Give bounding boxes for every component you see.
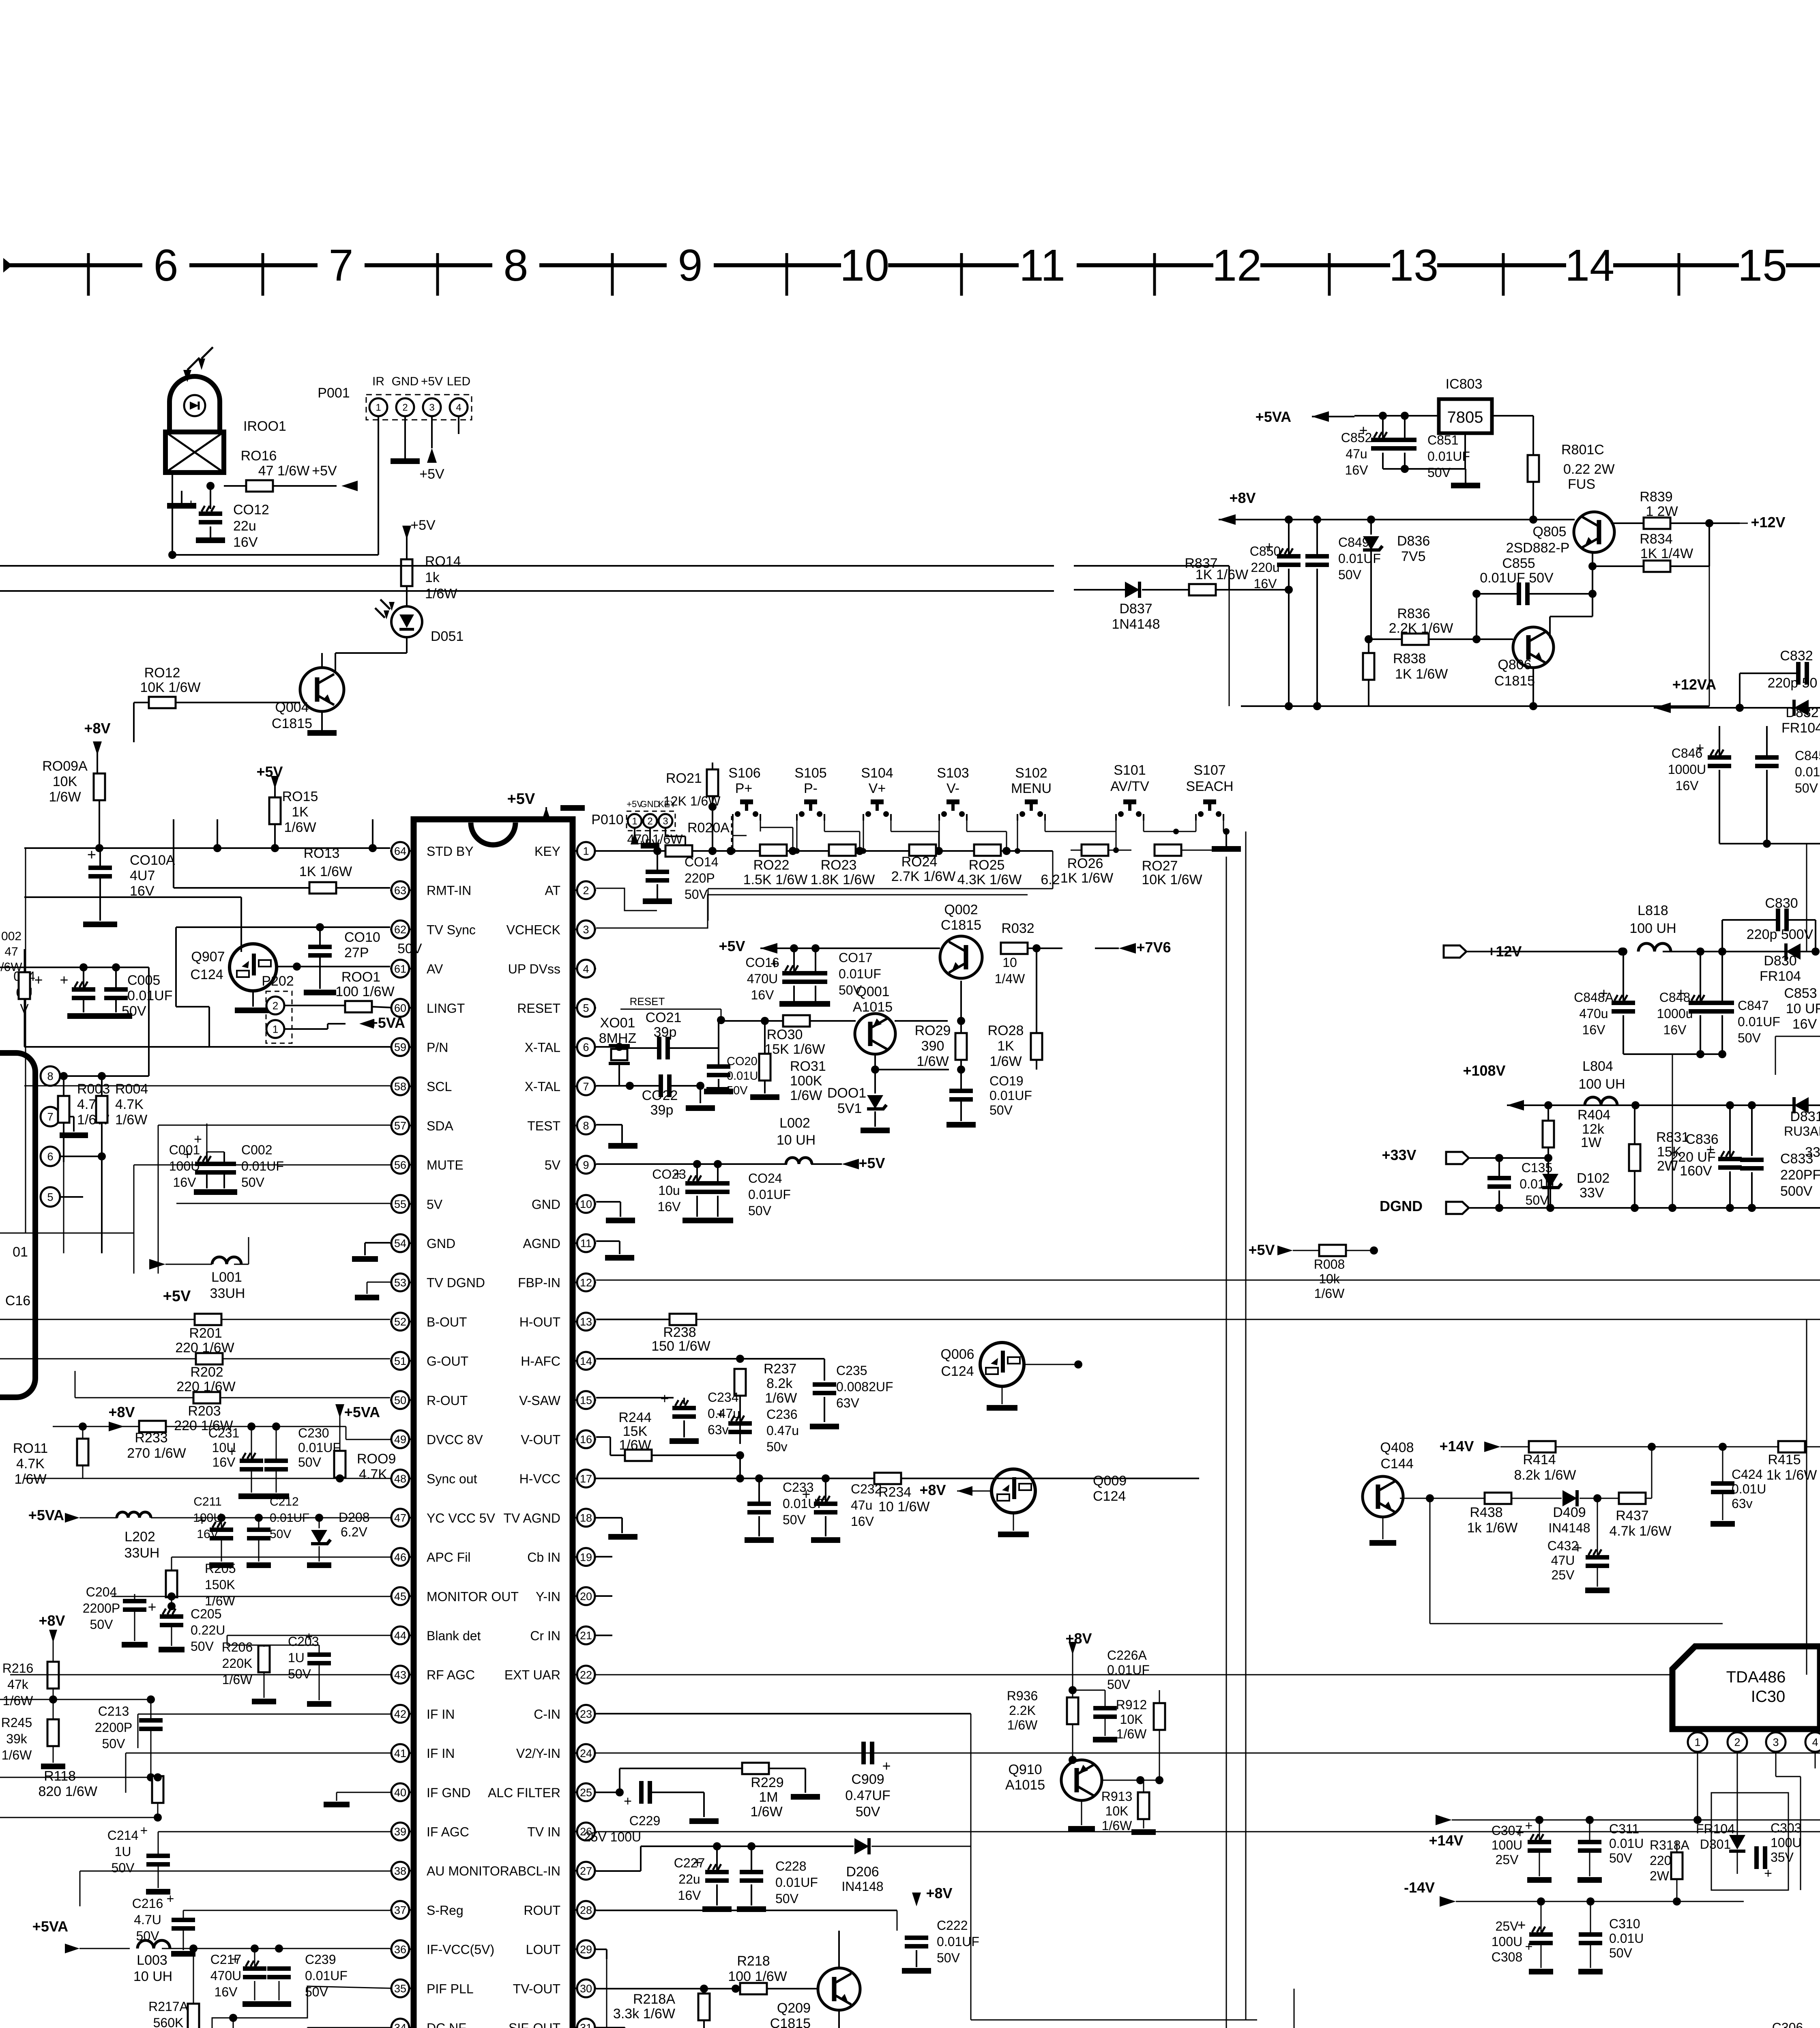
svg-text:R913: R913 (1101, 1789, 1133, 1804)
svg-text:CO14: CO14 (685, 855, 719, 869)
svg-text:+: + (1696, 739, 1704, 756)
svg-text:2W: 2W (1650, 1869, 1670, 1883)
svg-text:100 1/6W: 100 1/6W (335, 984, 395, 999)
svg-text:220P: 220P (685, 871, 715, 885)
svg-text:1/6W: 1/6W (14, 1472, 46, 1487)
svg-text:XO01: XO01 (600, 1015, 635, 1031)
svg-text:CO19: CO19 (989, 1074, 1024, 1088)
svg-text:7: 7 (47, 1111, 53, 1123)
svg-text:S105: S105 (794, 765, 826, 781)
svg-text:25: 25 (580, 1787, 592, 1799)
svg-text:+8V: +8V (1229, 490, 1256, 506)
svg-text:24: 24 (580, 1747, 592, 1759)
svg-text:+5V: +5V (858, 1155, 885, 1171)
wire Q004 base (133, 702, 135, 742)
svg-text:2200P: 2200P (83, 1601, 120, 1616)
svg-text:R318A: R318A (1650, 1838, 1690, 1852)
svg-text:47: 47 (4, 945, 18, 958)
svg-text:GND: GND (532, 1197, 560, 1212)
svg-text:1W: 1W (1581, 1135, 1601, 1150)
svg-text:2: 2 (273, 999, 278, 1012)
svg-text:S106: S106 (728, 765, 760, 781)
svg-text:+: + (34, 971, 43, 988)
svg-text:X-TAL: X-TAL (525, 1040, 560, 1055)
svg-text:1000U: 1000U (1668, 762, 1706, 777)
svg-text:Cr IN: Cr IN (530, 1628, 560, 1643)
svg-text:1/6W: 1/6W (425, 586, 457, 602)
svg-text:7: 7 (583, 1081, 589, 1093)
svg-text:0.01UF: 0.01UF (1738, 1014, 1780, 1029)
LED D051 (391, 606, 422, 637)
svg-text:50: 50 (394, 1394, 406, 1407)
wire pin64 row (24, 847, 390, 849)
svg-text:10 UF: 10 UF (1786, 1001, 1820, 1016)
svg-text:H-VCC: H-VCC (519, 1472, 560, 1486)
svg-text:RESET: RESET (517, 1001, 560, 1016)
ruler (3, 263, 1028, 267)
svg-text:V-: V- (946, 781, 959, 796)
svg-text:50V: 50V (685, 887, 708, 902)
svg-text:Q805: Q805 (1532, 524, 1566, 539)
svg-text:0.0082UF: 0.0082UF (836, 1379, 893, 1394)
svg-text:GND: GND (640, 799, 660, 809)
svg-text:1/6W: 1/6W (2, 1748, 32, 1762)
svg-text:62: 62 (394, 924, 406, 936)
svg-text:R206: R206 (222, 1640, 253, 1654)
svg-text:RU3AM: RU3AM (1784, 1124, 1820, 1139)
svg-text:1K 1/4W: 1K 1/4W (1640, 546, 1693, 561)
wire pin46 apc (172, 1557, 390, 1558)
svg-text:5V: 5V (545, 1158, 561, 1173)
svg-text:3: 3 (663, 816, 668, 827)
svg-text:TEST: TEST (527, 1119, 560, 1133)
svg-text:C849: C849 (1338, 535, 1369, 550)
svg-text:C832: C832 (1780, 648, 1813, 664)
svg-text:A1015: A1015 (1005, 1777, 1045, 1793)
svg-text:Q004: Q004 (275, 700, 309, 715)
svg-text:R216: R216 (2, 1661, 34, 1676)
svg-text:21: 21 (580, 1630, 592, 1642)
svg-text:4: 4 (583, 963, 589, 975)
wire pin22 ext-uar (596, 1674, 1820, 1676)
svg-text:64: 64 (394, 845, 406, 857)
svg-text:Q209: Q209 (777, 2000, 811, 2016)
svg-text:+5V: +5V (410, 518, 436, 533)
svg-text:33UH: 33UH (124, 1545, 160, 1561)
svg-text:27P: 27P (344, 945, 369, 960)
svg-text:R936: R936 (1007, 1689, 1038, 1703)
svg-text:Q910: Q910 (1008, 1762, 1042, 1777)
resistor RO25 (974, 844, 1001, 856)
svg-text:100U: 100U (1492, 1934, 1523, 1949)
svg-text:1U: 1U (115, 1844, 131, 1859)
svg-text:SIF-OUT: SIF-OUT (509, 2021, 560, 2028)
svg-text:220u: 220u (1251, 560, 1279, 575)
svg-text:1/6W: 1/6W (49, 789, 81, 805)
svg-text:RO13: RO13 (304, 846, 340, 861)
svg-text:0.01U: 0.01U (1609, 1931, 1644, 1946)
svg-text:3.3k 1/6W: 3.3k 1/6W (613, 2006, 675, 2022)
svg-text:S104: S104 (861, 765, 893, 781)
svg-text:Sync out: Sync out (427, 1472, 477, 1486)
pin IC001-8 (41, 1066, 60, 1086)
svg-text:+: + (60, 971, 68, 988)
svg-text:0.01UF: 0.01UF (937, 1934, 979, 1949)
svg-text:FR104: FR104 (1760, 969, 1801, 984)
svg-text:CO17: CO17 (839, 950, 873, 965)
svg-text:35V: 35V (1771, 1850, 1794, 1865)
svg-text:63: 63 (394, 884, 406, 896)
svg-text:16V: 16V (751, 988, 775, 1002)
svg-text:+: + (693, 1854, 702, 1871)
svg-text:D830: D830 (1764, 953, 1796, 969)
svg-text:V2/Y-IN: V2/Y-IN (516, 1746, 560, 1761)
svg-text:270 1/6W: 270 1/6W (127, 1446, 186, 1461)
svg-text:40: 40 (394, 1787, 406, 1799)
wire key bus down (1226, 857, 1227, 2028)
svg-text:16V: 16V (233, 535, 258, 550)
op-amp IC001 (partial) (0, 1053, 35, 1397)
svg-text:220PF: 220PF (1780, 1167, 1820, 1183)
svg-text:0.01UF: 0.01UF (775, 1875, 818, 1890)
wire KEY row (715, 850, 1053, 852)
svg-text:1/6W: 1/6W (790, 1088, 822, 1103)
wire pin57 sda (158, 1125, 390, 1126)
ground pin18 TV AGND (596, 1517, 622, 1519)
wire TDA box (1711, 1793, 1788, 1890)
svg-text:35: 35 (394, 1983, 406, 1995)
resistor R415 (1778, 1441, 1805, 1452)
svg-text:R205: R205 (205, 1561, 236, 1576)
svg-text:16V: 16V (658, 1199, 681, 1214)
svg-text:1/6W: 1/6W (989, 1054, 1022, 1069)
svg-text:820 1/6W: 820 1/6W (38, 1784, 97, 1799)
wire pin13 hout (596, 1319, 670, 1320)
svg-text:+: + (167, 1891, 174, 1906)
svg-text:C-IN: C-IN (534, 1707, 560, 1721)
stub pin20 (596, 1595, 612, 1597)
svg-text:C845: C845 (1795, 748, 1820, 763)
svg-text:10: 10 (840, 241, 889, 290)
zener D836 (1363, 536, 1379, 550)
svg-text:560K: 560K (153, 2015, 184, 2028)
pin IC001-6 (41, 1147, 60, 1166)
svg-text:R801C: R801C (1561, 442, 1604, 458)
svg-text:50V: 50V (775, 1891, 799, 1906)
svg-text:C1815: C1815 (272, 716, 312, 731)
svg-text:41: 41 (394, 1747, 406, 1759)
wire pin23 c-in (596, 1713, 971, 1714)
svg-text:Q001: Q001 (856, 984, 889, 999)
svg-text:30: 30 (580, 1983, 592, 1995)
svg-text:6: 6 (583, 1041, 589, 1053)
svg-text:5V1: 5V1 (837, 1101, 862, 1116)
svg-text:1/6W: 1/6W (1116, 1727, 1147, 1741)
svg-text:100 1/6W: 100 1/6W (728, 1969, 787, 1984)
svg-text:C214: C214 (107, 1828, 139, 1843)
svg-text:12: 12 (1212, 241, 1262, 290)
ground CO22 (700, 1086, 701, 1103)
svg-text:11: 11 (1019, 241, 1065, 290)
svg-text:C216: C216 (132, 1896, 163, 1911)
diode D409 (1562, 1490, 1577, 1506)
svg-text:160V: 160V (1680, 1163, 1712, 1179)
svg-text:16V: 16V (1254, 576, 1277, 591)
svg-text:+5V: +5V (719, 938, 745, 954)
wire pin35 pif (193, 1986, 390, 2028)
svg-text:P+: P+ (735, 781, 753, 796)
svg-text:+: + (1676, 985, 1685, 1001)
svg-text:50V: 50V (1526, 1193, 1549, 1207)
svg-text:+: + (802, 1486, 810, 1502)
svg-text:C228: C228 (775, 1859, 807, 1873)
svg-text:+5V: +5V (421, 375, 443, 388)
svg-text:+: + (660, 1390, 669, 1407)
svg-text:+: + (1525, 1818, 1533, 1833)
svg-text:+: + (194, 1132, 202, 1147)
svg-text:RO21: RO21 (666, 771, 702, 786)
svg-text:25V: 25V (1496, 1919, 1519, 1933)
resistor R032 (1001, 943, 1028, 954)
svg-text:R202: R202 (190, 1364, 223, 1380)
svg-text:IF IN: IF IN (427, 1707, 455, 1721)
svg-text:IR: IR (372, 375, 384, 388)
svg-text:RO23: RO23 (821, 857, 857, 873)
resistor RO30 (783, 1015, 810, 1027)
svg-text:D102: D102 (1577, 1171, 1610, 1186)
svg-text:P001: P001 (318, 385, 350, 401)
svg-text:4.3K 1/6W: 4.3K 1/6W (957, 872, 1022, 887)
svg-text:ROO9: ROO9 (357, 1451, 396, 1467)
wire pin48 row (24, 1478, 390, 1479)
svg-text:220K: 220K (222, 1656, 253, 1671)
svg-text:50V: 50V (1609, 1851, 1633, 1865)
svg-text:1000u: 1000u (1657, 1006, 1693, 1021)
svg-text:C124: C124 (941, 1364, 974, 1379)
svg-text:C308: C308 (1492, 1950, 1523, 1964)
svg-text:10u: 10u (658, 1183, 680, 1198)
svg-text:38: 38 (394, 1865, 406, 1877)
svg-text:C848: C848 (1659, 990, 1691, 1005)
svg-text:12: 12 (580, 1276, 592, 1289)
svg-text:8: 8 (503, 241, 528, 290)
svg-text:1: 1 (1694, 1736, 1700, 1749)
svg-text:33UH: 33UH (210, 1286, 245, 1301)
svg-text:GND: GND (392, 375, 419, 388)
svg-text:3: 3 (583, 924, 589, 936)
svg-text:53: 53 (394, 1276, 406, 1289)
svg-text:AT: AT (545, 883, 560, 898)
svg-text:+: + (1359, 422, 1367, 438)
svg-text:R217A: R217A (148, 1999, 189, 2014)
svg-text:1N4148: 1N4148 (1112, 617, 1160, 632)
svg-text:R838: R838 (1393, 651, 1426, 666)
svg-text:C235: C235 (836, 1363, 867, 1378)
svg-text:C002: C002 (241, 1143, 273, 1157)
svg-text:AU MONITOR: AU MONITOR (427, 1864, 509, 1878)
svg-text:+: + (140, 1823, 148, 1838)
svg-text:D051: D051 (431, 629, 464, 644)
svg-text:+: + (227, 1443, 236, 1459)
svg-text:C853: C853 (1784, 986, 1817, 1001)
wire pin15 vsaw (596, 1397, 674, 1399)
svg-text:50V: 50V (1427, 465, 1451, 480)
svg-text:SEACH: SEACH (1186, 779, 1233, 794)
svg-text:17: 17 (580, 1473, 592, 1485)
ground 7805 (1383, 468, 1466, 470)
wire pin25 alc (596, 1792, 620, 1793)
svg-text:5: 5 (583, 1002, 589, 1014)
svg-text:FR104: FR104 (1781, 720, 1820, 736)
svg-text:47u: 47u (1346, 447, 1367, 461)
svg-text:7V5: 7V5 (1401, 549, 1426, 564)
svg-text:+5V: +5V (163, 1288, 191, 1305)
svg-text:2200P: 2200P (95, 1720, 133, 1735)
svg-text:LINGT: LINGT (427, 1001, 465, 1016)
svg-text:R218: R218 (737, 1953, 770, 1969)
svg-text:SCL: SCL (427, 1079, 452, 1094)
svg-text:RO26: RO26 (1067, 856, 1103, 871)
svg-text:CO20: CO20 (727, 1055, 758, 1068)
svg-text:Q806: Q806 (1498, 657, 1531, 672)
svg-text:C239: C239 (305, 1952, 336, 1967)
svg-text:10: 10 (580, 1198, 592, 1210)
svg-text:R238: R238 (663, 1325, 696, 1340)
svg-text:C303: C303 (1771, 1821, 1802, 1835)
wire pin14 hafc (596, 1358, 740, 1360)
wire C845 bottom (1719, 843, 1820, 844)
svg-text:1.8K 1/6W: 1.8K 1/6W (811, 872, 875, 887)
svg-text:CO10: CO10 (344, 930, 380, 945)
svg-text:+5V: +5V (1248, 1242, 1275, 1258)
svg-text:CO10A: CO10A (130, 853, 175, 868)
svg-text:R245: R245 (1, 1715, 32, 1730)
svg-text:0.22U: 0.22U (191, 1623, 225, 1637)
svg-text:C310: C310 (1609, 1916, 1640, 1931)
svg-text:0.01UF: 0.01UF (1107, 1663, 1150, 1677)
svg-text:R244: R244 (618, 1410, 651, 1425)
svg-text:RO16: RO16 (241, 448, 277, 464)
svg-text:R004: R004 (115, 1081, 148, 1097)
svg-text:Blank det: Blank det (427, 1628, 481, 1643)
svg-text:C124: C124 (1093, 1489, 1126, 1504)
wire pin27 abcl (596, 1870, 641, 1872)
svg-text:+5VA: +5VA (1256, 408, 1291, 425)
svg-text:44: 44 (394, 1630, 406, 1642)
svg-text:TDA486: TDA486 (1726, 1668, 1786, 1686)
wire pin30 tvout (596, 1988, 740, 1989)
svg-text:0.01U: 0.01U (727, 1070, 758, 1083)
svg-text:50V: 50V (937, 1951, 960, 1965)
svg-text:APC Fil: APC Fil (427, 1550, 470, 1565)
wire pin3 VCHECK (596, 895, 1028, 928)
svg-text:RESET: RESET (630, 995, 665, 1008)
svg-text:50V: 50V (191, 1639, 214, 1654)
svg-text:15: 15 (1738, 241, 1787, 290)
svg-text:15: 15 (580, 1394, 592, 1407)
svg-text:Cb IN: Cb IN (527, 1550, 560, 1565)
svg-text:10K 1/6W: 10K 1/6W (140, 680, 200, 695)
svg-text:C230: C230 (298, 1426, 329, 1440)
svg-text:L818: L818 (1638, 903, 1668, 918)
svg-text:16V: 16V (1663, 1023, 1687, 1037)
svg-text:6: 6 (47, 1151, 53, 1163)
svg-text:54: 54 (394, 1237, 406, 1250)
svg-text:16V: 16V (1582, 1023, 1606, 1037)
svg-text:25V: 25V (1496, 1852, 1519, 1867)
svg-text:36: 36 (394, 1943, 406, 1955)
svg-text:C855: C855 (1502, 556, 1535, 571)
svg-text:C306: C306 (1772, 2020, 1803, 2028)
svg-text:9: 9 (583, 1159, 589, 1171)
svg-text:45: 45 (394, 1590, 406, 1603)
svg-text:1/6W: 1/6W (1314, 1286, 1345, 1301)
svg-text:ABCL-IN: ABCL-IN (509, 1864, 560, 1878)
svg-text:+5V: +5V (312, 463, 337, 479)
svg-text:10 UH: 10 UH (777, 1132, 816, 1148)
svg-text:AV: AV (427, 962, 443, 976)
svg-text:RF AGC: RF AGC (427, 1668, 475, 1682)
svg-text:C124: C124 (190, 967, 223, 982)
svg-text:50V: 50V (1338, 567, 1362, 582)
svg-text:47U: 47U (1551, 1553, 1575, 1568)
wire r216 row (0, 1699, 151, 1700)
svg-text:+: + (882, 1757, 891, 1774)
svg-text:470U: 470U (747, 971, 778, 986)
svg-text:C851: C851 (1427, 433, 1459, 447)
svg-text:50V: 50V (90, 1617, 114, 1632)
svg-text:10: 10 (1002, 955, 1017, 970)
power +5VA P202 (284, 1028, 328, 1030)
svg-text:C311: C311 (1609, 1822, 1639, 1836)
svg-text:FUS: FUS (1568, 477, 1595, 492)
svg-text:+: + (231, 1951, 239, 1967)
svg-text:0.01UF: 0.01UF (989, 1088, 1032, 1103)
svg-text:S101: S101 (1114, 763, 1146, 778)
svg-text:L202: L202 (124, 1529, 155, 1545)
pin TDA-2 (1737, 1729, 1738, 1733)
svg-text:C424: C424 (1732, 1467, 1763, 1482)
svg-text:UP DVss: UP DVss (508, 962, 560, 976)
svg-text:50V: 50V (1107, 1677, 1131, 1692)
svg-text:+: + (1517, 1916, 1526, 1933)
svg-text:Q408: Q408 (1380, 1440, 1414, 1455)
svg-text:14: 14 (580, 1355, 592, 1367)
svg-text:R032: R032 (1001, 921, 1034, 936)
svg-text:33V: 33V (1580, 1185, 1604, 1201)
transistor Q004 (300, 668, 344, 711)
svg-text:YC VCC 5V: YC VCC 5V (427, 1511, 496, 1525)
pin TDA-4 (1815, 1729, 1816, 1733)
svg-text:+: + (770, 955, 779, 972)
resistor R437 (1619, 1493, 1646, 1504)
svg-text:3: 3 (429, 402, 434, 413)
svg-text:IF IN: IF IN (427, 1746, 455, 1761)
wire pin56 mute (24, 1085, 390, 1087)
svg-text:47: 47 (394, 1512, 406, 1524)
svg-text:D301: D301 (1700, 1837, 1731, 1852)
svg-text:+8V: +8V (926, 1885, 952, 1901)
svg-text:220: 220 (1650, 1853, 1671, 1868)
svg-text:RO24: RO24 (901, 854, 938, 870)
wire pin59 row (24, 1046, 390, 1048)
svg-text:R237: R237 (764, 1361, 796, 1377)
svg-text:+: + (87, 846, 96, 864)
svg-text:R203: R203 (188, 1403, 221, 1419)
svg-text:50v: 50v (766, 1439, 788, 1454)
svg-text:1K 1/6W: 1K 1/6W (1195, 567, 1248, 582)
svg-text:1: 1 (376, 402, 381, 413)
